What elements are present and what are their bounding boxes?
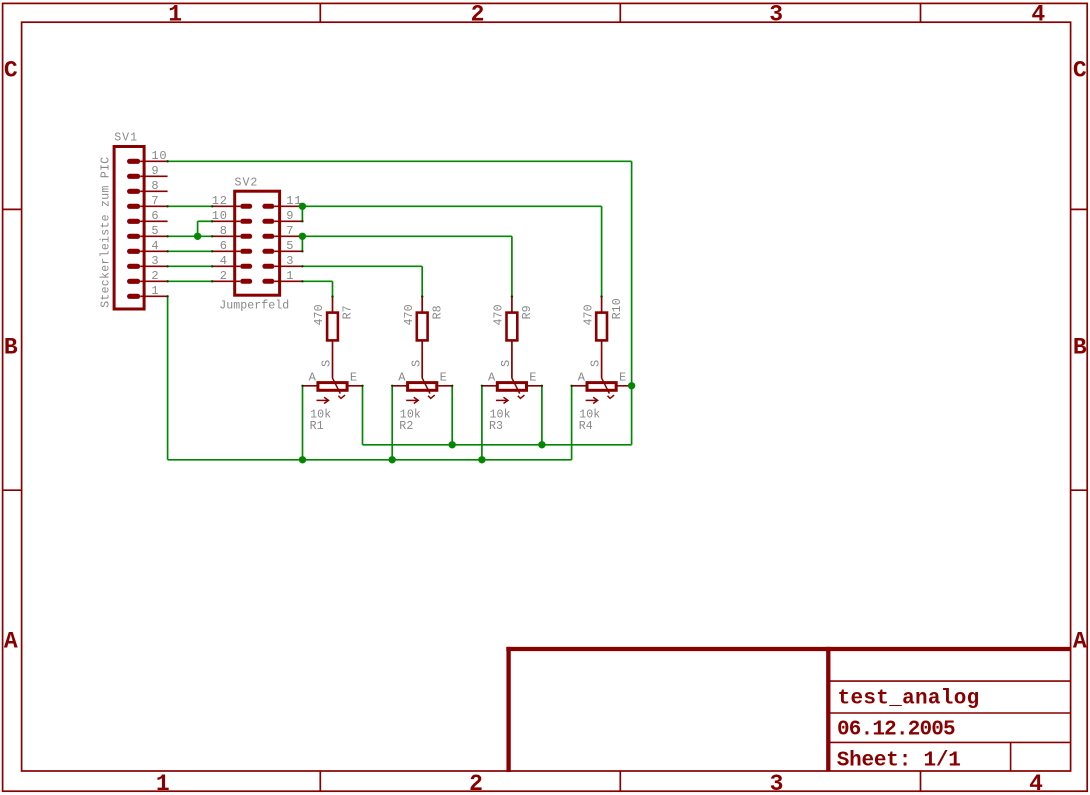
svg-text:A: A (398, 370, 406, 384)
SV2 pin 6 stub (212, 250, 240, 252)
SV2 pin 1 stub (274, 280, 302, 282)
resistor R9 (507, 313, 518, 341)
R3 pin E stub (525, 385, 542, 387)
svg-text:470: 470 (493, 304, 506, 325)
svg-text:C: C (4, 58, 18, 84)
svg-text:7: 7 (151, 194, 159, 208)
svg-text:3: 3 (770, 771, 784, 795)
R9 top pin (511, 297, 513, 312)
svg-text:6: 6 (220, 239, 228, 253)
svg-text:S: S (409, 359, 423, 367)
SV1 pin 4 stub (140, 250, 167, 252)
connector SV2 (235, 191, 280, 295)
SV2 pad pin 9 (262, 219, 274, 224)
svg-text:8: 8 (220, 224, 228, 238)
R9 bottom pin (511, 341, 513, 378)
title block (506, 647, 1070, 651)
SV2 pad pin 8 (240, 234, 252, 239)
wire SV1.7 to SV2.12 (168, 205, 213, 207)
svg-text:9: 9 (286, 209, 294, 223)
junction lower bus R3 (478, 456, 485, 463)
R8 bottom pin (421, 341, 423, 378)
svg-text:A: A (488, 370, 496, 384)
SV2 pad pin 3 (262, 264, 274, 269)
resistor R7 (327, 313, 338, 341)
SV2 pad pin 11 (262, 204, 274, 209)
SV1 pin 9 stub (140, 175, 167, 177)
junction upper bus R2 (449, 441, 456, 448)
wire R2.E vertical (451, 386, 453, 445)
R4 pin E stub (615, 385, 632, 387)
SV2 pad pin 7 (262, 234, 274, 239)
SV2 pad pin 10 (240, 219, 252, 224)
wire SV2.7 to SV2.5 (301, 236, 303, 251)
SV1 pin 1 stub (140, 295, 167, 297)
svg-text:10: 10 (212, 209, 228, 223)
R4 pin A stub (572, 385, 589, 387)
svg-text:6: 6 (151, 209, 159, 223)
wire SV1.2 to SV2.2 (168, 280, 213, 282)
trimmer potentiometer R4 (586, 378, 617, 404)
wire down to R7 (332, 281, 334, 296)
svg-text:Steckerleiste zum PIC: Steckerleiste zum PIC (99, 157, 112, 308)
svg-text:5: 5 (286, 239, 294, 253)
resistor R10 (596, 313, 607, 341)
junction lower bus R1 (299, 456, 306, 463)
wire down to R9 (511, 236, 513, 296)
wire down to R10 (601, 206, 603, 296)
SV1 pad pin 9 (127, 174, 140, 179)
svg-text:A: A (1073, 629, 1087, 655)
svg-text:R9: R9 (521, 305, 534, 319)
svg-text:test_analog: test_analog (838, 687, 980, 710)
svg-text:R10: R10 (611, 298, 624, 319)
SV2 pad pin 5 (262, 249, 274, 254)
junction SV2.7 (299, 233, 306, 240)
R10 bottom pin (601, 341, 603, 378)
svg-text:3: 3 (769, 2, 783, 28)
trimmer potentiometer R1 (317, 378, 348, 404)
SV2 pin 2 stub (212, 280, 240, 282)
wire R3.A vertical (481, 386, 483, 460)
SV2 pin 8 stub (212, 235, 240, 237)
svg-text:4: 4 (1031, 2, 1045, 28)
SV1 pad pin 7 (127, 204, 140, 209)
SV2 pin 3 stub (274, 265, 302, 267)
svg-text:R7: R7 (342, 305, 355, 319)
svg-text:1: 1 (168, 2, 182, 28)
SV1 pad pin 4 (127, 249, 140, 254)
svg-text:470: 470 (582, 304, 595, 325)
svg-text:A: A (4, 629, 18, 655)
wire down to R8 (421, 266, 423, 296)
svg-text:2: 2 (220, 269, 228, 283)
SV1 pad pin 5 (127, 234, 140, 239)
svg-text:R4: R4 (579, 420, 593, 433)
SV1 pad pin 1 (127, 294, 140, 299)
svg-text:E: E (440, 370, 448, 384)
SV1 pin 5 stub (140, 235, 167, 237)
SV1 pin 2 stub (140, 280, 167, 282)
svg-text:10: 10 (151, 149, 167, 163)
wire tap horizontal to SV2.10 (198, 220, 213, 222)
SV1 pad pin 10 (127, 159, 140, 164)
wire R3.E vertical (541, 386, 543, 445)
SV2 pin 12 stub (212, 205, 240, 207)
wire R1.E vertical (362, 386, 364, 445)
wire lower bus (168, 459, 572, 461)
svg-text:B: B (4, 334, 18, 360)
svg-text:5: 5 (151, 224, 159, 238)
SV2 pin 7 stub (274, 235, 302, 237)
wire SV2.1 horizontal (302, 280, 332, 282)
svg-text:R2: R2 (399, 420, 413, 433)
SV1 pin 3 stub (140, 265, 167, 267)
wire right long vertical (631, 161, 633, 445)
svg-text:4: 4 (151, 239, 159, 253)
R8 top pin (421, 297, 423, 312)
wire SV1.3 to SV2.4 (168, 265, 213, 267)
SV2 pad pin 4 (240, 264, 252, 269)
svg-text:S: S (499, 359, 513, 367)
R2 pin A stub (392, 385, 409, 387)
wire R4.A vertical (571, 386, 573, 460)
SV2 pin 4 stub (212, 265, 240, 267)
wire tap vertical to SV2.10 (197, 221, 199, 236)
svg-text:2: 2 (471, 2, 485, 28)
SV1 pad pin 6 (127, 219, 140, 224)
svg-text:B: B (1073, 334, 1087, 360)
SV1 pin 8 stub (140, 190, 167, 192)
SV1 pad pin 8 (127, 189, 140, 194)
svg-text:1: 1 (151, 284, 159, 298)
junction upper bus R3 (538, 441, 545, 448)
svg-text:R1: R1 (310, 420, 324, 433)
connector SV1 (114, 147, 144, 310)
svg-text:3: 3 (151, 254, 159, 268)
wire R2.A vertical (391, 386, 393, 460)
SV1 pad pin 2 (127, 279, 140, 284)
SV1 pad pin 3 (127, 264, 140, 269)
wire SV1.10 horizontal (168, 160, 632, 162)
svg-text:SV1: SV1 (114, 132, 138, 145)
svg-text:1: 1 (156, 771, 170, 795)
svg-text:4: 4 (220, 254, 228, 268)
wire upper bus (363, 444, 632, 446)
svg-text:3: 3 (286, 254, 294, 268)
svg-text:4: 4 (1029, 771, 1043, 795)
svg-text:E: E (350, 370, 358, 384)
svg-text:R8: R8 (431, 305, 444, 319)
junction SV2.11 (299, 203, 306, 210)
trimmer potentiometer R3 (496, 378, 527, 404)
wire SV2.3 horizontal (302, 265, 422, 267)
wire SV2.7 horizontal (302, 235, 512, 237)
SV2 pin 5 stub (274, 250, 302, 252)
svg-text:Jumperfeld: Jumperfeld (219, 299, 289, 312)
R7 bottom pin (332, 341, 334, 378)
svg-text:E: E (619, 370, 627, 384)
R10 top pin (601, 297, 603, 312)
svg-text:06.12.2005: 06.12.2005 (837, 719, 955, 742)
SV2 pad pin 2 (240, 279, 252, 284)
svg-text:A: A (309, 370, 317, 384)
R1 pin E stub (346, 385, 363, 387)
SV1 pin 6 stub (140, 220, 167, 222)
R7 top pin (332, 297, 334, 312)
junction SV1.5 net (194, 233, 201, 240)
svg-text:8: 8 (151, 179, 159, 193)
SV1 pin 7 stub (140, 205, 167, 207)
R3 pin A stub (482, 385, 499, 387)
wire R1.A vertical (302, 386, 304, 460)
wire SV1.1 down vertical (167, 296, 169, 460)
wire SV2.11 horizontal (302, 205, 601, 207)
SV2 pad pin 1 (262, 279, 274, 284)
wire SV1.4 to SV2.6 (168, 250, 213, 252)
R1 pin A stub (303, 385, 320, 387)
SV1 pin 10 stub (140, 160, 167, 162)
svg-text:C: C (1073, 58, 1087, 84)
wire SV1.5 to SV2.8 (168, 235, 213, 237)
R2 pin E stub (435, 385, 452, 387)
SV2 pin 10 stub (212, 220, 240, 222)
svg-text:Sheet: 1/1: Sheet: 1/1 (837, 749, 961, 772)
pin connection dots (166, 160, 168, 162)
trimmer potentiometer R2 (406, 378, 437, 404)
svg-text:A: A (578, 370, 586, 384)
svg-text:S: S (589, 359, 603, 367)
svg-text:2: 2 (151, 269, 159, 283)
svg-text:2: 2 (469, 771, 483, 795)
svg-text:S: S (320, 359, 334, 367)
svg-text:R3: R3 (489, 420, 503, 433)
SV2 pad pin 6 (240, 249, 252, 254)
SV2 pad pin 12 (240, 204, 252, 209)
svg-text:9: 9 (151, 164, 159, 178)
junction R4.E (628, 382, 635, 389)
SV2 pin 11 stub (274, 205, 302, 207)
svg-text:1: 1 (286, 269, 294, 283)
svg-text:470: 470 (403, 304, 416, 325)
resistor R8 (417, 313, 428, 341)
svg-text:E: E (529, 370, 537, 384)
wire SV2.11 to SV2.9 (301, 206, 303, 221)
svg-text:SV2: SV2 (235, 177, 259, 190)
svg-text:12: 12 (212, 194, 228, 208)
junction lower bus R2 (389, 456, 396, 463)
svg-text:470: 470 (313, 304, 326, 325)
svg-text:7: 7 (286, 224, 294, 238)
SV2 pin 9 stub (274, 220, 302, 222)
